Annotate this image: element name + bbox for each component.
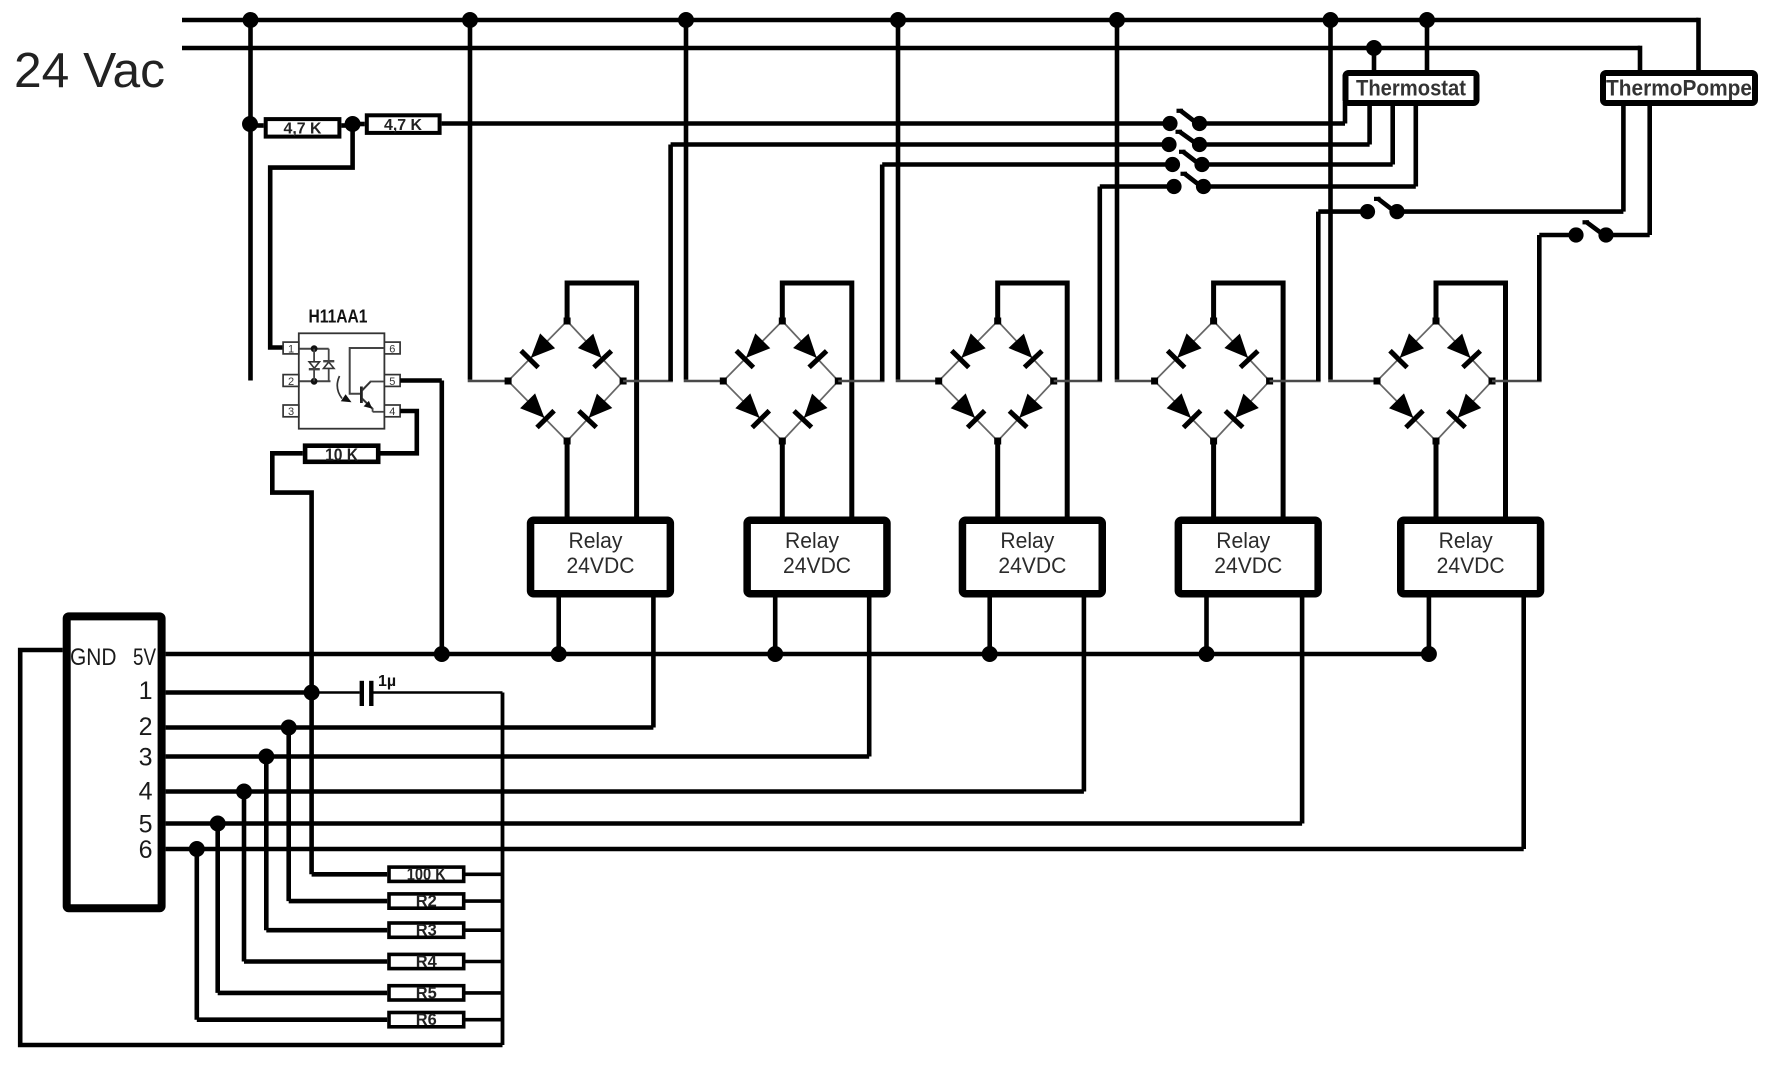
diode BR1 D1 (top-left) [521,333,555,367]
svg-text:24VDC: 24VDC [1437,553,1505,578]
diode BR2 D3 (left-bottom) [735,393,769,427]
wire SW2 to Thermostat pin b [1200,102,1370,145]
wire pin4 run [166,789,1084,794]
junction relay K3 on 5V rail [982,646,998,662]
svg-text:H11AA1: H11AA1 [309,307,368,327]
wire BR4 DC top loop [1214,283,1284,517]
wire SW5 to ThermoPompe pin a [1397,102,1623,212]
resistor R4 [389,952,464,971]
resistor R3 [389,921,464,940]
junction rail L2 Thermostat [1366,40,1382,56]
wire GND loop [20,650,502,1045]
svg-text:24 Vac: 24 Vac [14,44,165,98]
pin 5 of U1 [384,375,400,388]
resistor R1 4,7 K [266,119,340,137]
junction rail L1 bridge BR1 [462,12,478,28]
wire U1 pin4 to 10K [381,411,417,453]
wire branch to R3 [266,757,387,931]
bridge rectifier BR5 diamond [1377,321,1492,441]
diode BR5 D3 (left-bottom) [1389,393,1423,427]
wire rail L1 drop to bridge BR4 [1115,20,1120,380]
component ThermoPompe [1603,73,1755,103]
diode BR4 D4 (right-bottom) [1225,394,1259,428]
transistor Q1 base bar [360,387,363,404]
svg-text:24VDC: 24VDC [998,553,1066,578]
bridge rectifier BR1 diamond [508,321,623,441]
svg-text:5V: 5V [133,644,156,671]
svg-text:2: 2 [288,376,294,388]
wire BR1 DC bottom stem [565,441,570,517]
switch SW3 [1165,152,1210,172]
diode BR1 D4 (right-bottom) [579,394,613,428]
light arrow U1 [337,376,351,402]
wire row6 to SW6 [1539,233,1576,238]
svg-text:R3: R3 [416,921,437,940]
junction relay K5 on 5V rail [1421,646,1437,662]
bridge rectifier BR4 diamond [1155,321,1270,441]
wire feed to BR3 AC left node [896,380,939,383]
svg-text:4,7 K: 4,7 K [384,117,422,134]
wire R2 to GND bus [466,899,503,903]
wire U1 internal anode row [300,348,329,350]
wire branch to R6 [197,849,387,1020]
wire feed to BR1 AC left node [468,380,508,383]
connector J1 GND/5V/1-6 [67,616,162,908]
wire R3 to GND bus [466,928,503,932]
wire R6 to GND bus [466,1018,503,1022]
wire BR1 AC right node up [623,145,673,382]
wire pin1 to cap node [166,690,312,695]
wire pin2 run [166,725,654,730]
resistor R5 [389,983,464,1002]
wire BR5 DC top loop [1436,283,1506,517]
node squares BR3 [935,318,1057,445]
junction pin6 branch [189,841,205,857]
wire relay K2 coil- to 5V rail [773,598,778,655]
svg-text:100 K: 100 K [407,864,446,884]
wire 24Vac rail L2 (second) [182,46,1640,72]
wire rail L1 drop to bridge BR5 [1328,20,1333,380]
wire pin1 node to capacitor [312,691,360,694]
switch SW1 [1162,111,1207,131]
junction relay K4 on 5V rail [1199,646,1215,662]
wire R4 to GND bus [466,960,503,964]
svg-text:Relay: Relay [785,528,839,553]
wire row4 to SW4 [1100,184,1174,189]
svg-text:R6: R6 [416,1010,437,1029]
diode BR1 D2 (top-right) [578,334,612,368]
svg-text:Thermostat: Thermostat [1356,76,1467,101]
wire U1 internal cathode row [300,380,331,382]
junction pin2 branch [281,720,297,736]
wire rail L2 drop to Thermostat [1372,48,1377,72]
wire BR3 DC bottom stem [995,441,1000,517]
diode BR2 D1 (top-left) [736,333,770,367]
capacitor C1 1u [362,673,396,706]
wire row3 to SW3 [882,162,1172,167]
wire relay K4 output to pin5 [1300,598,1305,824]
diode BR3 D3 (left-bottom) [951,393,985,427]
wire BR5 DC bottom stem [1434,441,1439,517]
wire 5V rail [166,652,1429,657]
wire BR4 DC bottom stem [1211,441,1216,517]
wire pin5 run [166,821,1303,826]
diode BR4 D2 (top-right) [1224,334,1258,368]
diode BR5 D2 (top-right) [1447,334,1481,368]
junction rail L1 bridge BR5 [1323,12,1339,28]
wire branch to R2 [289,728,388,902]
wire 100K to GND bus [466,872,503,876]
wire relay K1 output to pin2 [651,598,656,728]
pin 2 of U1 [283,375,299,388]
diode U1 LED up [323,361,334,368]
wire branch to R4 [244,792,387,962]
wire relay K5 coil- to 5V rail [1427,598,1432,655]
wire junction elbow down to opto pin1 [270,124,352,348]
wire R1 to junction [341,123,352,128]
wire BR2 DC top loop [782,283,852,517]
svg-text:24VDC: 24VDC [566,553,634,578]
wire rail L1 drop to bridge BR2 [684,20,689,380]
wire relay K5 output to pin6 [1521,598,1526,850]
switch SW4 [1166,174,1211,194]
svg-text:R5: R5 [416,983,437,1002]
label H11AA1 [309,307,368,327]
svg-text:Relay: Relay [1000,528,1054,553]
bridge rectifier BR3 diamond [939,321,1054,441]
wire 24Vac rail L1 (top) [182,18,1699,72]
svg-text:1: 1 [139,677,153,705]
wire dot to R1 [250,123,264,128]
diode BR2 D4 (right-bottom) [794,394,828,428]
relay K2 24VDC [747,520,887,594]
wire U1 base from pin6 [350,348,385,394]
junction relay K2 on 5V rail [767,646,783,662]
svg-text:Relay: Relay [568,528,622,553]
wire SW4 to Thermostat pin d [1204,102,1416,187]
diode BR5 D4 (right-bottom) [1448,394,1482,428]
wire capacitor to GND bus [374,691,503,694]
svg-text:ThermoPompe: ThermoPompe [1606,76,1752,101]
node squares BR1 [505,318,627,445]
wire feed to BR5 AC left node [1328,380,1377,383]
transistor Q1 collector [362,382,384,391]
svg-text:R2: R2 [416,892,437,911]
wire rail L1 drop to bridge BR3 [896,20,901,380]
junction pin5 branch [210,816,226,832]
switch SW5 [1360,199,1405,219]
node squares BR4 [1151,318,1273,445]
label 24 Vac source [14,44,165,98]
pin 1 of U1 [283,342,299,355]
diode BR2 D2 (top-right) [793,334,827,368]
relay K4 24VDC [1178,520,1318,594]
pin 3 of U1 [283,405,299,418]
node squares BR5 [1374,318,1496,445]
wire BR3 AC right node up [1054,187,1102,382]
wire feed to BR2 AC left node [684,380,724,383]
wire feed to BR4 AC left node [1115,380,1155,383]
junction relay K1 on 5V rail [551,646,567,662]
relay K3 24VDC [962,520,1102,594]
wire BR4 AC right node up [1270,212,1321,381]
node U1 internal top [311,345,318,352]
wire SW3 to Thermostat pin c [1202,102,1393,165]
svg-text:5: 5 [389,376,395,388]
wire row1 from R2 to SW1 [442,121,1170,126]
junction U1 pin5 on 5V rail [434,646,450,662]
wire relay K1 coil- to 5V rail [556,598,561,655]
wire 10K left elbow to node1 [272,453,311,692]
wire BR5 AC right node up [1492,235,1542,381]
wire SW6 to ThermoPompe pin b [1606,102,1650,235]
svg-text:5: 5 [139,811,153,839]
relay K1 24VDC [531,520,671,594]
wire relay K4 coil- to 5V rail [1204,598,1209,655]
wire pin3 run [166,754,870,759]
wire BR1 DC top loop [567,283,637,517]
svg-text:3: 3 [139,744,153,772]
junction pin4 branch [236,784,252,800]
pin 4 of U1 [384,405,400,418]
wire U1 right diode branch [328,349,330,382]
diode BR3 D1 (top-left) [952,333,986,367]
relay K5 24VDC [1401,520,1541,594]
junction rail L1 bridge BR3 [890,12,906,28]
junction rail L1 bridge BR2 [678,12,694,28]
svg-text:4,7 K: 4,7 K [284,121,322,138]
svg-text:10 K: 10 K [325,445,358,465]
wire rail L1 drop to bridge BR1 [468,20,473,380]
junction pin3 branch [258,749,274,765]
junction rail L1 bridge BR4 [1109,12,1125,28]
junction rail L1 Thermostat [1419,12,1435,28]
switch SW6 [1568,222,1613,242]
bridge rectifier BR2 diamond [723,321,838,441]
diode BR3 D2 (top-right) [1009,334,1043,368]
svg-text:Relay: Relay [1216,528,1270,553]
svg-text:6: 6 [139,836,153,864]
wire BR2 AC right node up [838,165,884,382]
svg-text:24VDC: 24VDC [1214,553,1282,578]
op-amp U1 H11AA1 body [299,333,385,428]
wire relay K3 coil- to 5V rail [987,598,992,655]
diode BR4 D3 (left-bottom) [1167,393,1201,427]
diode BR5 D1 (top-left) [1390,333,1424,367]
diode BR4 D1 (top-left) [1168,333,1202,367]
svg-text:4: 4 [139,778,153,806]
wire row2 to SW2 [671,142,1169,147]
resistor R2 [389,892,464,911]
switch SW2 [1161,132,1207,152]
svg-text:Relay: Relay [1439,528,1493,553]
wire row5 to SW5 [1318,209,1367,214]
svg-text:1µ: 1µ [378,673,396,690]
wire junction to R2 [353,122,365,127]
wire SW1 to Thermostat pin a [1200,102,1346,124]
resistor R6 [389,1010,464,1029]
junction R1-R2 node on drop [242,116,258,132]
node U1 internal bottom [311,378,318,385]
wire U1 left diode branch [313,349,315,382]
resistor R7 10 K [305,445,378,465]
wire U1 pin5 to 5V rail [400,381,442,655]
diode U1 LED down [309,362,320,369]
wire pin6 run [166,847,1524,852]
junction rail L1 / R1 drop [243,12,259,28]
wire relay K3 output to pin4 [1082,598,1087,792]
wire rail L1 drop to opto pin2 [248,20,253,381]
wire relay K2 output to pin3 [867,598,872,757]
svg-text:1: 1 [288,343,294,355]
component Thermostat [1346,73,1477,103]
svg-text:3: 3 [288,406,294,418]
wire R5 to GND bus [466,991,503,995]
pin 6 of U1 [384,342,400,355]
svg-text:2: 2 [139,713,153,741]
svg-text:GND: GND [70,644,117,671]
junction between 4,7K resistors [345,116,361,132]
diode BR1 D3 (left-bottom) [520,393,554,427]
node squares BR2 [720,318,842,445]
wire branch to 100K [312,693,388,875]
transistor Q1 emitter [362,399,384,412]
svg-text:R4: R4 [416,952,438,971]
wire rail L1 drop to Thermostat [1425,20,1430,72]
svg-text:6: 6 [389,343,395,355]
diode BR3 D4 (right-bottom) [1009,394,1043,428]
wire branch to R5 [218,824,388,993]
resistor 100K [389,864,464,884]
junction pin1 node [304,685,320,701]
wire BR3 DC top loop [998,283,1067,517]
wire GND bus [501,693,505,1046]
svg-text:4: 4 [389,406,395,418]
svg-text:24VDC: 24VDC [783,553,851,578]
resistor R2 4,7 K [367,115,440,134]
wire BR2 DC bottom stem [780,441,785,517]
